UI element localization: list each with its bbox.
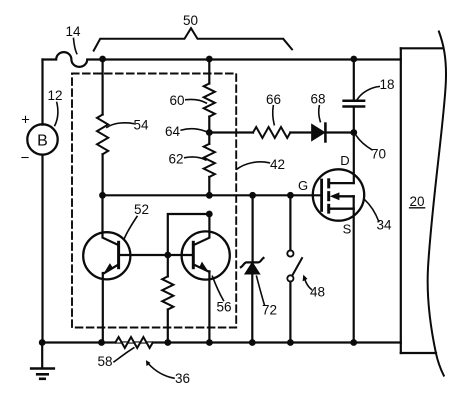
svg-text:36: 36 <box>175 371 190 386</box>
svg-text:60: 60 <box>169 93 184 108</box>
svg-text:58: 58 <box>97 354 112 369</box>
label 58 <box>97 348 133 369</box>
node dot gate rail zener <box>249 192 256 199</box>
wire column 54 upper <box>101 59 103 115</box>
wire left battery column upper <box>41 60 43 125</box>
node dot gate rail switch <box>287 192 294 199</box>
label 20 underlined <box>409 194 424 209</box>
svg-text:56: 56 <box>216 300 231 315</box>
wire bottom rail <box>42 341 401 343</box>
svg-text:42: 42 <box>270 157 285 172</box>
label 62 <box>168 152 205 167</box>
wire base resistor to bottom rail <box>167 310 169 343</box>
transistor Q56 <box>182 214 230 343</box>
wire resistor 66 to diode 68 <box>290 131 312 133</box>
label 72 <box>257 276 278 317</box>
switch 48 <box>287 195 302 342</box>
resistor 60 <box>204 84 215 117</box>
wire base rail 52-56 <box>119 254 194 256</box>
svg-text:B: B <box>37 133 48 150</box>
svg-text:−: − <box>21 150 30 167</box>
label 42 <box>237 157 285 172</box>
battery B (12) <box>27 124 57 154</box>
node dot bases <box>164 252 171 259</box>
resistor 62 <box>204 144 215 177</box>
wire bases node down <box>167 255 169 276</box>
label 60 <box>169 93 206 108</box>
diode 68 <box>312 124 326 142</box>
svg-text:70: 70 <box>371 147 386 162</box>
wire capacitor to node 70 <box>353 107 355 133</box>
node dot bottom ground <box>39 339 46 346</box>
svg-text:62: 62 <box>168 152 183 167</box>
node dot gate rail left <box>99 192 106 199</box>
label 70 <box>356 136 386 162</box>
svg-text:52: 52 <box>134 202 149 217</box>
wire column 60 upper <box>208 59 210 84</box>
svg-text:20: 20 <box>409 194 424 209</box>
resistor base bias <box>162 276 173 309</box>
svg-text:66: 66 <box>266 92 281 107</box>
label 14 <box>65 24 81 54</box>
node dot bottom emitter 56 <box>206 339 213 346</box>
wire top rail with break squiggle 14 <box>43 52 401 67</box>
load block 20 <box>401 32 446 376</box>
label 64 <box>165 124 208 139</box>
resistor 58 <box>115 337 152 348</box>
svg-text:68: 68 <box>310 92 325 107</box>
svg-text:54: 54 <box>133 118 149 133</box>
svg-text:18: 18 <box>379 77 394 92</box>
wire left battery column lower <box>41 155 43 343</box>
wire node 64 vertical <box>208 117 210 144</box>
svg-text:S: S <box>343 222 352 237</box>
label 18 <box>357 77 394 99</box>
label 36 with arrow <box>146 360 190 386</box>
wire capacitor column upper <box>353 59 355 100</box>
wire drain lead <box>353 133 355 184</box>
node dot collector 56 <box>206 211 213 218</box>
ground <box>31 343 54 379</box>
label 56 <box>212 276 231 314</box>
wire mid row 64 to resistor 66 <box>209 131 253 133</box>
wire column 54 lower <box>101 154 103 195</box>
node dot top rail 60 <box>206 56 213 63</box>
label 48 with arrow <box>303 275 325 300</box>
dashed box 42 <box>72 74 236 328</box>
resistor 54 <box>97 115 108 155</box>
node dot 70 <box>350 129 357 136</box>
mosfet U34 <box>313 169 364 342</box>
svg-text:D: D <box>340 153 349 168</box>
label 34 <box>365 200 392 233</box>
label 52 <box>124 202 149 238</box>
svg-text:50: 50 <box>183 13 198 28</box>
node dot gate rail 62 <box>206 192 213 199</box>
wire collector link L <box>168 214 210 255</box>
label 66 <box>266 92 281 125</box>
wire gate rail <box>103 194 322 196</box>
node dot top rail cap <box>350 56 357 63</box>
node dot top rail 54 <box>99 56 106 63</box>
svg-text:12: 12 <box>47 88 62 103</box>
label 12 <box>47 88 62 126</box>
node dot bottom base resistor <box>164 339 171 346</box>
node dot bottom switch <box>287 339 294 346</box>
node dot 64 <box>206 129 213 136</box>
wire column 62 lower <box>208 177 210 195</box>
svg-text:+: + <box>21 112 30 129</box>
wire diode to node 70 <box>327 131 354 133</box>
zener diode 72 <box>241 195 264 342</box>
svg-text:64: 64 <box>165 124 181 139</box>
capacitor 18 <box>344 101 365 107</box>
label 68 <box>310 92 325 122</box>
transistor Q52 <box>83 195 130 342</box>
node dot bottom zener <box>249 339 256 346</box>
brace 50 <box>94 28 292 50</box>
svg-text:48: 48 <box>310 285 325 300</box>
node dot bottom emitter 52 <box>98 339 105 346</box>
node dot bottom source <box>350 339 357 346</box>
svg-text:G: G <box>298 178 308 193</box>
resistor 66 <box>253 127 290 138</box>
svg-text:14: 14 <box>65 24 81 39</box>
label 54 <box>107 118 149 133</box>
